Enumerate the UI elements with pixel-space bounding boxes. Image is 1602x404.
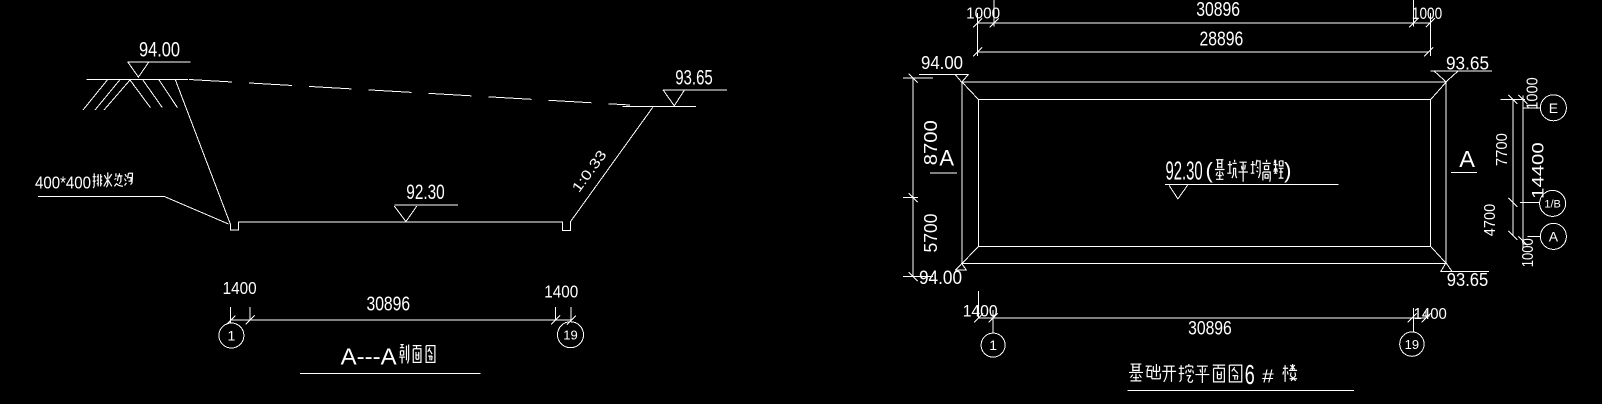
svg-text:19: 19: [563, 328, 577, 343]
svg-text:400*400: 400*400: [35, 173, 91, 193]
second dimension ticks: [973, 48, 1433, 57]
left extension lines: [903, 78, 933, 277]
axis bubble E: [1540, 95, 1566, 121]
leader axis A: [1528, 235, 1541, 237]
svg-text:8700: 8700: [921, 120, 941, 165]
pit bottom with drainage notches: [230, 222, 570, 231]
connector to plan bubble 19: [1413, 318, 1415, 332]
bottom dimension line: [978, 317, 1426, 319]
axis bubble 1/B: [1540, 190, 1566, 216]
svg-text:A: A: [1549, 228, 1559, 244]
svg-text:6: 6: [1245, 359, 1255, 390]
center elevation CJK: [1215, 160, 1283, 182]
right dim ticks A: [1509, 95, 1518, 240]
svg-text:E: E: [1549, 100, 1558, 116]
ground line right: [623, 106, 696, 108]
svg-text:92.30: 92.30: [1166, 156, 1203, 186]
svg-text:93.65: 93.65: [1446, 53, 1489, 74]
svg-text:93.65: 93.65: [1447, 269, 1488, 290]
svg-text:1000: 1000: [966, 5, 1000, 22]
svg-text:1400: 1400: [544, 282, 578, 302]
ground surface dashed line: [189, 80, 630, 106]
level marker top-left 94.00: [919, 74, 969, 82]
right dimension line 1000/14400/1000: [1522, 95, 1524, 248]
axis bubble 1: [219, 323, 244, 348]
svg-text:30896: 30896: [1188, 319, 1232, 340]
label drain CJK: [93, 172, 133, 188]
svg-text:92.30: 92.30: [406, 181, 444, 204]
svg-text:1/B: 1/B: [1544, 198, 1561, 210]
leader axis 1/B: [1520, 201, 1539, 203]
svg-text:1: 1: [228, 328, 236, 344]
top extension lines: [978, 0, 1431, 56]
svg-text:#: #: [1262, 366, 1274, 386]
plan axis bubble 1: [981, 333, 1005, 357]
left dimension ticks: [909, 74, 918, 282]
top dimension ticks: [973, 18, 1435, 27]
dimension ticks: [226, 316, 576, 325]
top dimension line 30896: [978, 22, 1431, 24]
axis bubble 19: [558, 322, 584, 348]
plan axis bubble 19: [1400, 332, 1424, 356]
svg-text:19: 19: [1405, 337, 1419, 352]
section marker A right underline: [1451, 172, 1477, 174]
left dimension line 8700/5700: [912, 78, 914, 277]
svg-text:94.00: 94.00: [919, 268, 962, 289]
svg-text:1400: 1400: [223, 278, 257, 298]
leader axis E: [1523, 107, 1541, 109]
right dimension line 7700/4700: [1512, 100, 1514, 237]
center elevation triangle: [1169, 185, 1188, 199]
level marker bottom-right 93.65: [1441, 263, 1489, 272]
connector to plan bubble 1: [992, 318, 994, 333]
bottom extension lines: [978, 291, 1426, 318]
second dimension line 28896: [978, 51, 1429, 53]
svg-text:5700: 5700: [921, 214, 941, 253]
svg-text:A: A: [1459, 146, 1475, 172]
level marker 94.00: [128, 62, 191, 77]
svg-text:1: 1: [989, 337, 997, 353]
svg-text:A: A: [939, 146, 954, 171]
svg-text:30896: 30896: [1196, 0, 1240, 21]
section marker A left underline: [930, 172, 957, 174]
right extension line axis E: [1500, 98, 1525, 100]
corner slope diagonals: [962, 82, 1446, 264]
connector to axis bubble 19: [570, 320, 572, 322]
svg-text:1000: 1000: [1525, 77, 1542, 110]
plan title underline: [1127, 390, 1354, 392]
right slope line: [570, 108, 652, 222]
bottom dimension ticks: [974, 313, 1431, 322]
ground line left: [86, 78, 188, 80]
plan title lou CJK: [1283, 364, 1297, 382]
svg-text:94.00: 94.00: [139, 38, 180, 61]
svg-text:): ): [1284, 158, 1291, 183]
svg-text:30896: 30896: [367, 293, 411, 315]
svg-text:93.65: 93.65: [675, 66, 713, 89]
svg-text:(: (: [1206, 158, 1214, 183]
center elevation underline: [1165, 184, 1339, 186]
svg-text:7700: 7700: [1494, 133, 1511, 166]
connector to axis bubble 1: [230, 320, 232, 323]
svg-text:1000: 1000: [1520, 238, 1537, 267]
ground hatching: [83, 80, 177, 110]
svg-text:A---A: A---A: [341, 343, 397, 369]
left slope line: [175, 80, 230, 224]
pit top outline (outer rectangle): [962, 82, 1446, 264]
level marker 93.65: [663, 90, 727, 106]
level marker 92.30: [394, 205, 458, 222]
level marker top-right 93.65: [1431, 71, 1492, 82]
title CJK section: [399, 345, 435, 364]
svg-text:1400: 1400: [963, 303, 998, 321]
plan title CJK: [1129, 364, 1242, 383]
dimension line bottom: [231, 319, 572, 321]
svg-text:4700: 4700: [1482, 204, 1499, 236]
pit bottom outline (inner rectangle): [979, 100, 1431, 247]
title underline A-A: [300, 372, 481, 374]
svg-text:14400: 14400: [1530, 142, 1548, 199]
level marker bottom-left 94.00: [956, 264, 967, 271]
axis bubble A: [1540, 223, 1566, 249]
svg-text:28896: 28896: [1200, 28, 1244, 51]
svg-text:1000: 1000: [1412, 5, 1442, 23]
svg-text:1400: 1400: [1414, 306, 1448, 323]
leader 400x400 drain ditch: [38, 197, 229, 225]
right dim ticks B: [1519, 95, 1528, 246]
extension lines: [231, 307, 572, 320]
svg-text:94.00: 94.00: [921, 52, 963, 73]
